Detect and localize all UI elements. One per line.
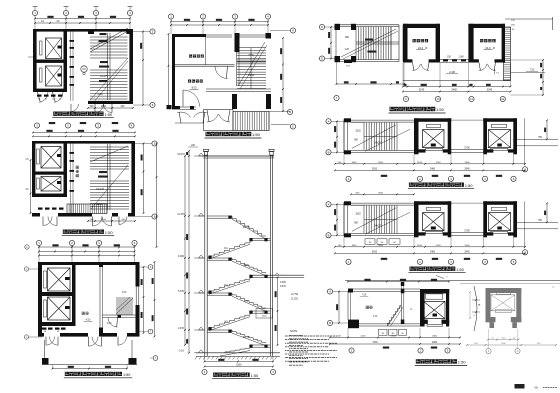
svg-text:5100: 5100 [236,365,242,367]
svg-text:2550: 2550 [378,245,384,247]
svg-text:B: B [329,321,331,325]
svg-text:2460: 2460 [452,89,458,92]
svg-text:1:50: 1:50 [465,183,474,188]
svg-text:2100: 2100 [101,219,107,221]
svg-text:1620: 1620 [352,245,358,247]
svg-text:3240: 3240 [419,89,425,92]
svg-text:2100: 2100 [417,162,423,164]
svg-text:A: A [517,349,519,353]
svg-text:1620: 1620 [355,129,361,132]
svg-text:1:50: 1:50 [456,267,465,272]
svg-text:9x175: 9x175 [243,227,250,229]
svg-text:24x175: 24x175 [374,141,383,144]
svg-text:2550: 2550 [378,162,384,164]
svg-text:1.80: 1.80 [107,323,112,325]
svg-text:9.00: 9.00 [192,87,197,90]
svg-text:2100: 2100 [361,336,367,338]
svg-text:3240: 3240 [487,89,493,92]
svg-text:2.970: 2.970 [178,327,185,330]
svg-text:2100: 2100 [101,106,107,108]
svg-text:-0.03: -0.03 [178,350,184,353]
svg-text:12.750: 12.750 [291,294,299,296]
svg-text:8.970: 8.970 [280,286,286,288]
svg-text:D: D [321,25,323,29]
svg-text:2550: 2550 [248,54,254,57]
svg-text:1:50: 1:50 [252,132,261,137]
svg-text:24.0: 24.0 [485,46,491,50]
svg-text:A: A [292,29,294,33]
svg-text:2640: 2640 [465,169,471,171]
svg-text:1260: 1260 [96,203,102,206]
svg-text:2700: 2700 [436,245,442,247]
svg-text:2100: 2100 [391,336,397,338]
svg-text:E: E [321,57,323,61]
svg-text:10: 10 [436,97,440,101]
svg-text:16x175: 16x175 [96,188,105,191]
svg-text:9x175: 9x175 [243,337,250,339]
svg-text:1:50: 1:50 [436,107,445,112]
svg-text:2400: 2400 [465,245,471,247]
svg-text:11.370: 11.370 [177,213,185,216]
svg-text:B: B [289,110,291,114]
svg-text:1:50: 1:50 [105,230,114,235]
svg-text:1260: 1260 [97,93,103,96]
svg-text:1430: 1430 [262,312,268,314]
svg-text:2400: 2400 [432,336,438,338]
svg-text:2700: 2700 [464,146,470,149]
svg-text:A: A [329,290,331,294]
svg-text:5100: 5100 [372,169,378,171]
svg-text:5.970: 5.970 [178,290,185,293]
svg-text:24x28: 24x28 [248,74,255,77]
svg-text:2700: 2700 [464,229,470,232]
svg-text:24x175: 24x175 [374,224,383,227]
svg-text:9.000: 9.000 [280,282,286,284]
svg-text:1:50: 1:50 [458,359,467,364]
svg-text:24.0: 24.0 [418,46,424,50]
svg-text:16x175: 16x175 [100,75,109,78]
svg-text:2700: 2700 [436,162,442,164]
svg-text:08: 08 [534,386,538,390]
svg-text:A: A [328,202,330,206]
svg-text:B: B [328,233,330,237]
svg-text:2800: 2800 [243,265,249,267]
svg-text:7.50: 7.50 [530,69,535,72]
svg-text:11: 11 [470,97,473,101]
svg-text:2400: 2400 [465,162,471,164]
svg-text:4700: 4700 [372,342,378,344]
svg-text:B: B [328,150,330,154]
svg-text:2460: 2460 [430,252,436,254]
svg-text:2100: 2100 [417,245,423,247]
svg-text:1620: 1620 [352,162,358,164]
svg-text:2640: 2640 [465,252,471,254]
svg-text:1:50: 1:50 [104,112,113,117]
svg-text:A: A [328,119,330,123]
svg-text:1.5M: 1.5M [458,57,463,59]
svg-text:11.250: 11.250 [291,299,299,301]
svg-text:14.970: 14.970 [177,153,185,156]
svg-text:2550: 2550 [378,193,384,195]
svg-text:1620: 1620 [355,212,361,215]
svg-text:2.4M: 2.4M [449,70,455,74]
svg-text:1:50: 1:50 [251,373,260,378]
svg-text:4.50: 4.50 [86,319,91,322]
svg-text:2460: 2460 [430,169,436,171]
svg-text:2000: 2000 [501,343,507,345]
svg-text:NOTE: NOTE [290,329,297,333]
svg-text:2.60: 2.60 [122,292,127,294]
svg-text:1:50: 1:50 [123,373,130,377]
svg-text:5100: 5100 [372,252,378,254]
svg-text:9.000: 9.000 [178,255,185,258]
svg-text:12: 12 [501,97,505,101]
svg-text:1200: 1200 [262,316,268,318]
svg-text:2400: 2400 [432,342,438,344]
svg-text:1.20: 1.20 [373,316,378,318]
svg-text:C: C [292,125,294,129]
